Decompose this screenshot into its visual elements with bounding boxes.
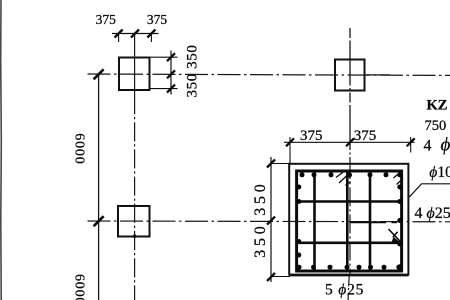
svg-text:ϕ10: ϕ10 [429, 164, 450, 181]
svg-text:6000: 6000 [72, 274, 87, 300]
svg-text:5 ϕ25: 5 ϕ25 [325, 282, 364, 299]
svg-text:375: 375 [96, 12, 117, 27]
svg-text:350: 350 [252, 222, 269, 257]
svg-text:6000: 6000 [72, 133, 87, 164]
svg-text:4 ϕ25: 4 ϕ25 [415, 205, 450, 222]
svg-text:750: 750 [425, 118, 447, 134]
svg-text:4 ϕ: 4 ϕ [424, 135, 450, 156]
svg-text:375: 375 [300, 128, 323, 144]
svg-text:KZ: KZ [427, 97, 448, 113]
svg-text:350 350: 350 350 [185, 45, 201, 98]
svg-text:375: 375 [147, 12, 168, 27]
svg-text:375: 375 [354, 128, 377, 144]
svg-text:350: 350 [252, 180, 269, 215]
